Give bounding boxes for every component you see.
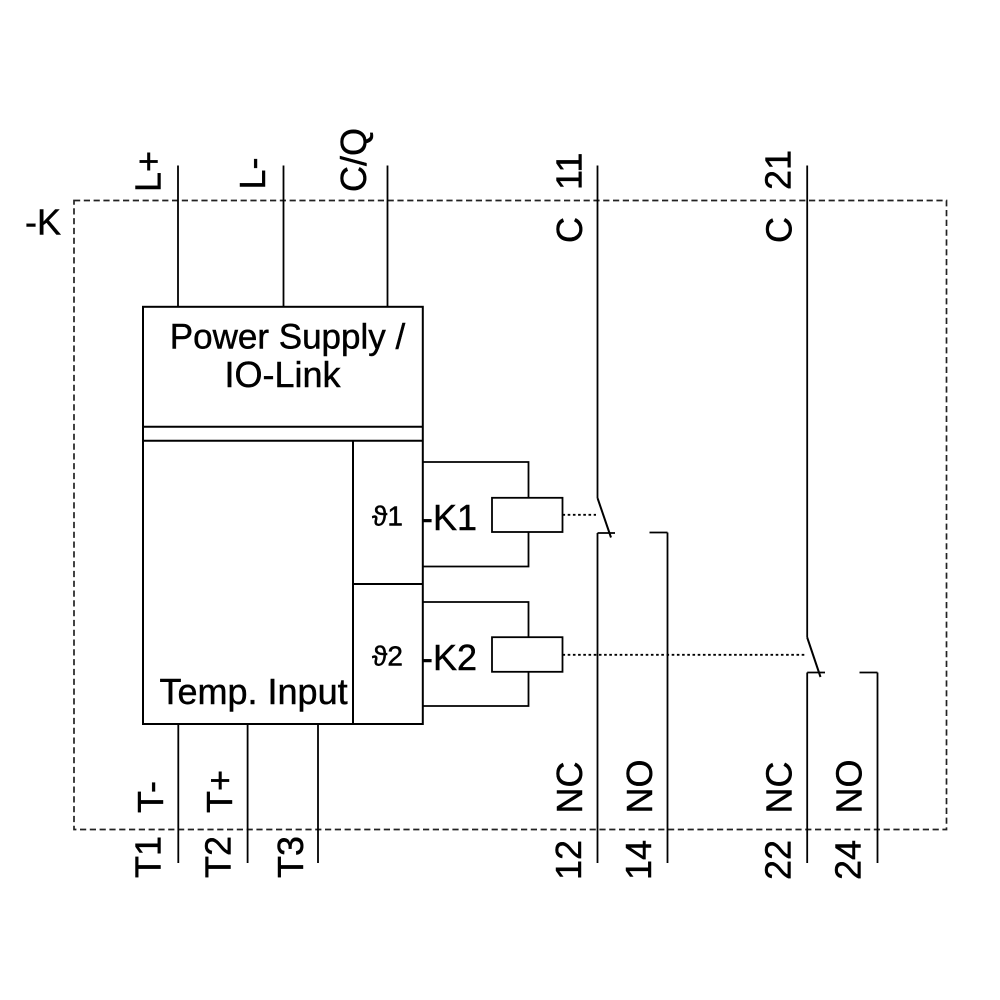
svg-text:-K: -K [25,202,61,243]
wire T2 [247,724,249,863]
divider horizontal (theta1 / theta2 cells) [353,583,423,585]
svg-text:T1: T1 [128,836,169,878]
wire C/Q [387,166,389,308]
wire T1 [177,724,179,863]
svg-text:L-: L- [232,157,273,189]
svg-text:T+: T+ [199,770,240,813]
actuation link K2 (dotted) [563,654,807,656]
wire NO 14 [667,533,669,864]
divider vertical (theta column) [352,441,354,724]
svg-text:-K2: -K2 [421,637,477,678]
wire NC 12 [597,533,599,863]
svg-text:Power Supply /: Power Supply / [170,318,406,357]
wire bracket theta1 to coil K1 [423,462,529,567]
contact K1 NC terminal tick [598,532,616,534]
svg-text:11: 11 [549,153,590,190]
svg-text:NC: NC [759,762,800,814]
wire NC 22 [806,673,808,864]
svg-text:L+: L+ [128,151,169,192]
svg-text:C: C [549,217,590,243]
contact K2 blade [807,638,820,678]
contact K1 NO terminal tick [650,532,668,534]
wire C 21 (common of contact K2) [806,166,808,638]
svg-text:NC: NC [549,762,590,814]
svg-text:Temp. Input: Temp. Input [160,671,348,712]
svg-text:12: 12 [548,840,589,880]
svg-text:T2: T2 [198,836,239,878]
svg-text:NO: NO [829,760,870,814]
divider line (power supply section bottom) [143,426,423,428]
contact K1 blade [598,498,612,538]
wire NO 24 [877,673,879,864]
svg-text:NO: NO [619,760,660,814]
contact K2 NC terminal tick [807,672,825,674]
wire bracket theta2 to coil K2 [423,602,529,706]
coil K1 [492,498,563,532]
svg-text:T-: T- [130,781,171,813]
svg-text:-K1: -K1 [421,497,477,538]
dashed enclosure border -K [74,201,947,830]
svg-text:ϑ1: ϑ1 [372,501,403,532]
function block outline U1 [143,307,423,724]
wire C 11 (common of contact K1) [597,166,599,499]
wire L+ [177,166,179,308]
svg-text:C: C [759,217,800,243]
svg-text:C/Q: C/Q [333,128,374,192]
wire T3 [317,724,319,863]
svg-text:21: 21 [758,150,799,190]
svg-text:22: 22 [758,840,799,880]
svg-text:IO-Link: IO-Link [224,354,341,395]
svg-text:14: 14 [618,840,659,880]
svg-text:24: 24 [828,840,869,880]
contact K2 NO terminal tick [860,672,878,674]
svg-text:T3: T3 [270,836,311,878]
divider line (temp input section top) [143,440,423,442]
wire L- [283,166,285,308]
actuation link K1 (dotted) [563,514,597,516]
svg-text:ϑ2: ϑ2 [372,641,403,672]
coil K2 [492,637,563,672]
